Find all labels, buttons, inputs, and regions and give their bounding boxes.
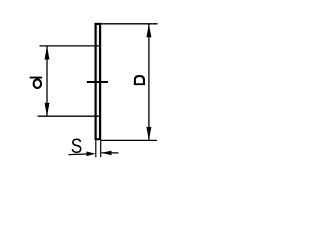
dimension line D (148, 24, 150, 141)
label D (rotated: bottom bar + arch) (134, 76, 145, 85)
arrowhead d bottom (45, 103, 50, 117)
arrowhead D top (146, 24, 151, 38)
dimension line d (46, 46, 48, 116)
svg-text:S: S (71, 135, 83, 159)
extension line S right (below washer) (100, 141, 102, 158)
label d (rotated: stem bar + bowl ring) (30, 77, 42, 88)
arrowhead S right (102, 151, 112, 156)
leader line S left (69, 153, 91, 156)
leader line S right (102, 152, 119, 154)
arrowhead S left (87, 152, 96, 157)
extension line D top (101, 23, 158, 25)
extension line d top (40, 45, 102, 47)
arrowhead d top (45, 46, 50, 60)
washer body (side view rectangle) (96, 24, 101, 139)
centerline tick (87, 81, 108, 83)
extension line S left (below washer) (95, 141, 97, 158)
extension line D bottom (101, 139, 157, 141)
arrowhead D bottom (146, 127, 151, 140)
extension line d bottom (38, 115, 101, 117)
